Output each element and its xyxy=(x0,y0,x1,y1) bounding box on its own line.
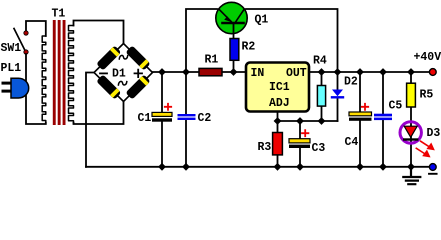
svg-text:D1: D1 xyxy=(112,67,126,80)
capacitor C3 negative plate xyxy=(289,145,310,148)
LED D3 ring xyxy=(400,122,421,143)
wire secondary top to bridge top corner xyxy=(74,21,124,44)
svg-text:C4: C4 xyxy=(345,136,359,149)
bridge diode bottom-left xyxy=(96,74,121,99)
node C3 bottom xyxy=(296,163,304,171)
switch SW1 contact top xyxy=(24,31,28,35)
diode D2 triangle xyxy=(332,90,343,97)
wire SW1 down past plug to primary bottom xyxy=(26,54,46,124)
bridge rectifier D1 diamond outline xyxy=(94,44,153,102)
LED D3 light arrow 2 xyxy=(416,148,424,153)
node C4 top xyxy=(356,68,364,76)
capacitor C4 positive plate xyxy=(349,112,372,116)
wire main positive rail: bridge to R1 xyxy=(153,71,201,73)
svg-text:C2: C2 xyxy=(198,112,212,125)
capacitor C3 plus xyxy=(302,130,308,136)
capacitor C5 plate bottom xyxy=(374,118,392,121)
wire D2 leads xyxy=(337,72,339,121)
svg-text:R3: R3 xyxy=(258,141,272,154)
node C4 bottom xyxy=(356,163,364,171)
capacitor C2 plate top xyxy=(178,114,196,116)
transistor Q1 body xyxy=(216,2,247,33)
node R4 bottom xyxy=(318,117,326,125)
resistor R1 xyxy=(199,68,222,75)
svg-text:SW1: SW1 xyxy=(1,42,22,55)
ground symbol xyxy=(403,167,420,184)
wire IC1 ADJ pin xyxy=(277,112,279,122)
bridge minus sign xyxy=(100,72,107,74)
wire main rail: IC1 OUT to +40V terminal xyxy=(309,71,429,73)
capacitor C2 plate bottom xyxy=(178,118,196,120)
svg-text:T1: T1 xyxy=(52,7,66,20)
wire C2 leads xyxy=(185,72,187,167)
resistor R4 xyxy=(317,86,325,107)
transistor Q1 emitter lead down to R2 xyxy=(233,24,235,39)
svg-text:Q1: Q1 xyxy=(255,13,269,26)
wire R5 leads xyxy=(410,72,412,167)
svg-text:R4: R4 xyxy=(313,54,327,67)
node R3 bottom xyxy=(274,163,282,171)
svg-text:IN: IN xyxy=(251,67,265,80)
svg-text:R5: R5 xyxy=(420,89,434,102)
node C2/top-rail xyxy=(182,68,190,76)
bridge diode top-right xyxy=(125,45,150,70)
wire C4 leads xyxy=(359,72,361,167)
bridge AC tilde bottom xyxy=(118,81,126,85)
capacitor C1 plus xyxy=(165,104,171,110)
node ADJ/R3 xyxy=(274,117,282,125)
node C3 top xyxy=(296,117,304,125)
node C2 bottom xyxy=(182,163,190,171)
transformer T1 core bar 3 xyxy=(63,20,66,125)
switch SW1 contact bottom xyxy=(24,50,28,54)
svg-text:D2: D2 xyxy=(344,75,358,88)
node R2/R1/IN xyxy=(230,68,238,76)
wire R3 leads xyxy=(277,121,279,167)
plug PL1 prong 1 xyxy=(2,82,12,85)
svg-text:C3: C3 xyxy=(312,142,326,155)
node C5 bottom xyxy=(379,163,387,171)
terminal +40V xyxy=(429,69,436,76)
node D2/top-rail xyxy=(334,68,342,76)
wire bridge left corner to bottom-left vertical xyxy=(86,73,94,167)
wire top rail from C2 node up over Q1 to D2 node xyxy=(186,9,338,72)
svg-text:IC1: IC1 xyxy=(269,81,290,94)
transistor Q1 base bar xyxy=(223,22,244,25)
IC1 regulator box xyxy=(246,63,309,112)
svg-text:OUT: OUT xyxy=(286,67,307,80)
resistor R2 xyxy=(230,39,239,61)
resistor R5 xyxy=(407,83,416,107)
capacitor C1 positive plate xyxy=(152,112,172,116)
transformer T1 core bar 1 xyxy=(53,20,56,125)
bridge AC tilde top xyxy=(119,55,127,59)
node R4 top xyxy=(318,68,326,76)
wire bottom ground rail xyxy=(86,166,429,168)
transformer T1 secondary coil xyxy=(69,26,74,124)
plug PL1 body xyxy=(11,78,29,98)
node C1 top xyxy=(158,68,166,76)
wire R2 bottom to rail node xyxy=(233,60,235,72)
terminal negative xyxy=(429,164,436,171)
transistor Q1 left diagonal with emitter arrow xyxy=(219,9,232,22)
LED D3 triangle xyxy=(404,126,417,137)
LED D3 cathode bar xyxy=(404,138,417,140)
bridge plus sign xyxy=(135,70,143,77)
resistor R3 xyxy=(273,133,283,155)
svg-text:C1: C1 xyxy=(138,112,152,125)
transformer T1 core bar 2 xyxy=(58,20,61,125)
diode D2 cathode bar xyxy=(332,96,343,98)
wire primary top: SW1 up, right, down to primary coil xyxy=(26,21,46,36)
svg-text:C5: C5 xyxy=(389,99,403,112)
wire main rail: R1 to IC1 IN xyxy=(221,71,246,73)
capacitor C4 plus xyxy=(362,104,368,110)
bridge diode top-left xyxy=(96,45,121,70)
switch SW1 lever xyxy=(14,29,25,50)
node C5 top xyxy=(379,68,387,76)
capacitor C5 plate top xyxy=(374,114,392,117)
transformer T1 primary coil xyxy=(42,36,46,123)
wire R4 leads xyxy=(321,72,323,121)
transistor Q1 right diagonal xyxy=(236,9,245,22)
capacitor C1 negative plate xyxy=(152,118,172,121)
capacitor C3 positive plate xyxy=(289,139,310,143)
node R5 top xyxy=(407,68,415,76)
terminal minus sign xyxy=(429,173,437,175)
svg-text:D3: D3 xyxy=(427,127,441,140)
bridge diode bottom-right xyxy=(125,74,150,99)
svg-text:PL1: PL1 xyxy=(1,62,22,75)
svg-text:+40V: +40V xyxy=(414,51,441,64)
node D3/ground xyxy=(407,163,415,171)
capacitor C4 negative plate xyxy=(349,118,372,121)
wire C1 leads xyxy=(161,72,163,167)
svg-text:R2: R2 xyxy=(242,41,256,54)
wire C3 leads xyxy=(299,121,301,167)
LED D3 light arrow 1 xyxy=(416,141,433,156)
wire secondary bottom to bridge bottom corner xyxy=(74,102,124,125)
node C1 bottom xyxy=(158,163,166,171)
svg-text:R1: R1 xyxy=(205,54,219,67)
plug PL1 prong 2 xyxy=(2,90,12,93)
wire ADJ horizontal net xyxy=(278,120,338,122)
svg-text:ADJ: ADJ xyxy=(269,97,290,110)
wire C5 leads xyxy=(382,72,384,167)
